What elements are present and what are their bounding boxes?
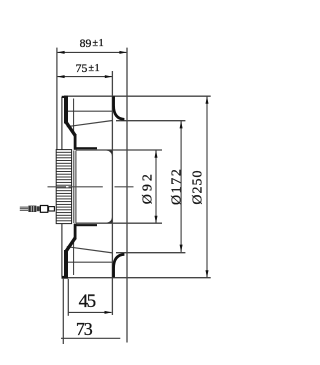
inlet plate bottom edge + ext (116, 252, 185, 254)
stator flange cap top (74, 147, 97, 149)
dimension dia172 line (180, 121, 182, 252)
arrow up dia250 (206, 96, 209, 103)
dimension 89 line (58, 51, 127, 53)
long line x127 (wall plate right face / extension) (126, 48, 128, 343)
motor corner chamfer top (106, 151, 112, 157)
arrow left 75 (57, 75, 64, 78)
svg-text:45: 45 (79, 291, 96, 312)
stator flange cap bottom (74, 224, 97, 226)
svg-text:73: 73 (76, 319, 93, 339)
motor left edge x75.9 (75, 151, 77, 224)
rotor inner line top (73, 99, 75, 132)
long line x112.4 (inlet wall / motor face / extension) (111, 71, 113, 315)
shroud inner line top (67, 110, 113, 112)
rotor inner line bottom (73, 242, 75, 275)
cable wires (20, 207, 28, 210)
svg-text:Ø172: Ø172 (170, 168, 185, 206)
arrow right 89 (119, 51, 126, 54)
svg-text:89±1: 89±1 (80, 37, 105, 50)
extension line x68.3 lower left (67, 279, 69, 316)
svg-text:Ø92: Ø92 (140, 171, 155, 204)
arrow right 45 (105, 311, 112, 314)
extension line left x57 (56, 48, 58, 151)
arrow down dia172 (180, 245, 183, 252)
arrow down dia250 (206, 270, 209, 277)
svg-text:Ø250: Ø250 (191, 169, 206, 204)
extension line x63.3 lower left (62, 279, 64, 344)
rotor back thick bar top (64, 96, 68, 124)
arrow left 89 (57, 51, 64, 54)
inlet ring curl top (114, 96, 125, 119)
rotor can outer line top (61, 97, 63, 150)
arrow up dia172 (180, 121, 183, 128)
hub diagonal top (66, 123, 75, 136)
arrow down dia92 (155, 216, 158, 223)
shroud inner line bottom (67, 261, 113, 263)
cable gland body (28, 206, 36, 212)
inlet ring curl bottom (114, 254, 125, 277)
dimension 73 line (61, 337, 120, 339)
dimension 75 line (58, 76, 112, 78)
blade edge bottom (67, 247, 113, 253)
rotor bottom cap (62, 276, 69, 279)
centerline dashed (48, 186, 134, 188)
cable gland nut (37, 206, 40, 211)
dimension dia92 line (155, 150, 157, 223)
svg-text:75±1: 75±1 (76, 62, 101, 75)
motor bottom edge + dia92 ext (76, 222, 162, 224)
motor flange line x73.8 (73, 151, 75, 224)
arrow right 75 (105, 75, 112, 78)
cable gland neck (49, 207, 55, 211)
rotor back thick bar bottom (64, 250, 68, 278)
arrow up dia92 (155, 150, 158, 157)
rotor top cap (62, 96, 68, 98)
dimension 45 line (68, 311, 111, 313)
inlet plate top edge + ext (116, 120, 185, 122)
hub diagonal bottom (66, 238, 75, 251)
cable gland housing (40, 206, 47, 213)
hub vertical thick top (74, 134, 77, 150)
hub vertical thick bottom (74, 224, 77, 240)
fan bottom outline y277.7 (64, 277, 211, 279)
rotor can outer line bottom (61, 224, 63, 277)
dimension dia250 line (206, 96, 208, 277)
fan top outline y96 (64, 95, 211, 97)
blade edge top (67, 121, 113, 127)
motor corner chamfer bottom (106, 217, 112, 223)
motor top edge + dia92 ext (76, 149, 162, 151)
motor cooling fins (56, 150, 71, 224)
